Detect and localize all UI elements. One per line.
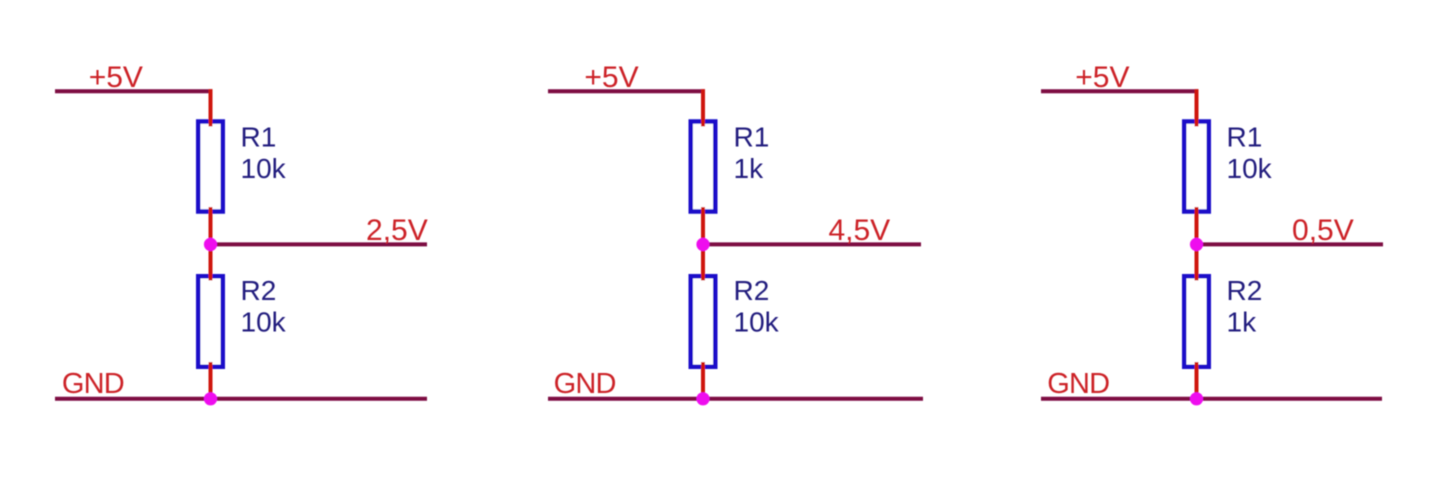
svg-text:GND: GND [1047,368,1109,400]
wire lead from R1 to R2 through output node (circuit 2) [701,207,705,281]
wire lead from R2 to GND rail (circuit 2) [701,362,705,400]
wire lead from +5V rail into R1 (circuit 1) [209,89,213,126]
svg-text:R2: R2 [1227,275,1263,306]
junction dot at GND node (circuit 1) [204,392,217,405]
junction dot at GND node (circuit 2) [696,392,709,405]
svg-text:R1: R1 [1227,122,1263,153]
junction dot at output node (circuit 2) [696,238,709,251]
svg-text:R2: R2 [734,275,770,306]
wire lead from R1 to R2 through output node (circuit 3) [1195,207,1199,281]
svg-text:1k: 1k [1227,307,1258,338]
resistor R2 (circuit 1) [198,276,223,367]
resistor R1 (circuit 3) [1184,122,1209,212]
wire lead from +5V rail into R1 (circuit 3) [1195,89,1199,126]
wire from output node to the right (circuit 1) [211,242,428,246]
junction dot at output node (circuit 1) [204,238,217,251]
svg-text:0,5V: 0,5V [1292,214,1354,247]
svg-text:10k: 10k [1227,153,1273,184]
wire lead from R1 to R2 through output node (circuit 1) [209,207,213,281]
svg-text:GND: GND [554,368,616,400]
svg-text:10k: 10k [241,307,287,338]
resistor R1 (circuit 2) [691,122,716,212]
wire lead from +5V rail into R1 (circuit 2) [701,89,705,126]
wire lead from R2 to GND rail (circuit 3) [1195,362,1199,400]
wire from output node to the right (circuit 2) [703,242,921,246]
wire +5V rail (circuit 2) [548,89,705,93]
svg-text:10k: 10k [734,307,780,338]
svg-text:+5V: +5V [584,61,638,94]
svg-text:+5V: +5V [89,61,143,94]
wire +5V rail (circuit 1) [55,89,213,93]
junction dot at output node (circuit 3) [1190,238,1203,251]
wire GND rail (circuit 2) [548,397,923,401]
svg-text:R1: R1 [241,122,277,153]
wire from output node to the right (circuit 3) [1197,242,1384,246]
svg-text:4,5V: 4,5V [828,214,890,247]
svg-text:2,5V: 2,5V [366,214,428,247]
svg-text:+5V: +5V [1075,61,1129,94]
svg-text:R1: R1 [734,122,770,153]
junction dot at GND node (circuit 3) [1190,392,1203,405]
wire GND rail (circuit 3) [1041,397,1382,401]
wire lead from R2 to GND rail (circuit 1) [209,362,213,400]
resistor R1 (circuit 1) [198,122,223,212]
wire GND rail (circuit 1) [55,397,427,401]
svg-text:GND: GND [62,368,124,400]
wire +5V rail (circuit 3) [1041,89,1199,93]
svg-text:R2: R2 [241,275,277,306]
svg-text:10k: 10k [241,153,287,184]
svg-text:1k: 1k [734,153,765,184]
resistor R2 (circuit 3) [1184,276,1209,367]
resistor R2 (circuit 2) [691,276,716,367]
